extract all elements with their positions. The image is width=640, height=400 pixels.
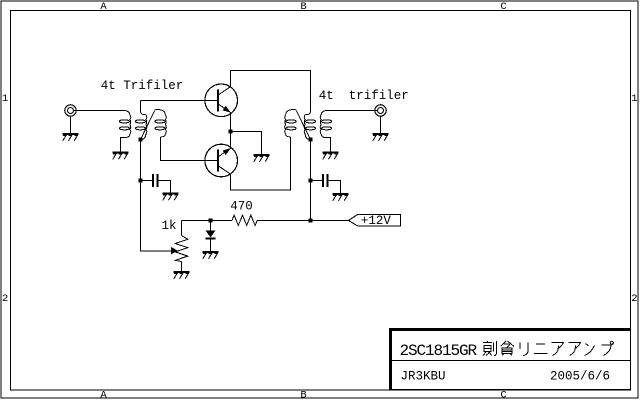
- title katakana プ: [602, 341, 614, 355]
- svg-text:+12V: +12V: [361, 214, 392, 228]
- svg-text:A: A: [100, 390, 107, 400]
- junction +12V node: [308, 218, 312, 222]
- wire Q1 collector to top rail to T2 center winding: [231, 71, 311, 113]
- ground C2: [332, 193, 348, 201]
- title katakana ア second: [569, 343, 581, 356]
- svg-text:B: B: [300, 390, 306, 400]
- ground VR1: [173, 271, 189, 279]
- junction emitters: [228, 129, 232, 133]
- wire connector ground stem: [70, 116, 72, 133]
- wire Q2 collector to T2 winding D: [231, 137, 291, 190]
- svg-text:2: 2: [2, 293, 8, 305]
- svg-text:A: A: [100, 1, 107, 13]
- wire Q2 emitter up: [230, 132, 232, 149]
- winding A (primary): [119, 111, 130, 152]
- title block: [389, 328, 631, 390]
- ground under winding A: [112, 152, 128, 160]
- junction T2 center tap: [308, 137, 312, 141]
- ground C1: [162, 193, 178, 201]
- junction bypass C1: [138, 178, 142, 182]
- svg-text:C: C: [500, 1, 506, 13]
- ground under connector J2: [372, 133, 388, 141]
- wire bias rail: [182, 220, 233, 222]
- svg-text:4t trifiler: 4t trifiler: [319, 89, 409, 103]
- transistor Q1 (2SC1815GR upper): [205, 84, 238, 117]
- wire T1 center tap down to pot: [141, 140, 172, 252]
- net flag +12V: [349, 214, 401, 228]
- ground under winding F: [322, 152, 338, 160]
- winding C: [155, 110, 167, 137]
- svg-text:1: 1: [2, 93, 8, 105]
- capacitor C1 (input bias bypass): [141, 174, 171, 193]
- transistor Q2 (2SC1815GR lower, mirrored): [205, 144, 238, 177]
- svg-text:B: B: [300, 1, 306, 13]
- title katakana ア: [552, 343, 564, 356]
- ground emitters: [253, 154, 269, 162]
- wire series diagonal B bottom to C top: [141, 111, 155, 140]
- wire Q1 base from winding B: [141, 100, 219, 102]
- wire Q2 base from winding C bottom: [161, 137, 218, 161]
- svg-text:JR3KBU: JR3KBU: [401, 370, 446, 384]
- wire Q1 emitter down: [230, 112, 232, 132]
- transformer T2 (output, 4t trifilar) with connector J2 : mirrored copy: [285, 101, 386, 152]
- title katakana ン: [585, 344, 595, 356]
- connector J1: [65, 105, 76, 116]
- svg-text:4t Trifiler: 4t Trifiler: [101, 79, 184, 93]
- transformer T1 (input, 4t trifilar) with connector J1 and winding leads: [65, 101, 166, 152]
- wire T2 center tap down to +12V node: [310, 140, 312, 221]
- junction diode node: [208, 218, 212, 222]
- svg-text:C: C: [500, 390, 506, 400]
- svg-text:2SC1815GR: 2SC1815GR: [400, 342, 478, 360]
- title kanji 貧: [501, 341, 515, 356]
- svg-text:1: 1: [631, 93, 637, 105]
- potentiometer VR1 1k: [171, 221, 188, 272]
- ground D1: [202, 251, 218, 259]
- title kanji 劇: [483, 341, 497, 356]
- svg-text:470: 470: [230, 200, 253, 214]
- wire R1 to +12V flag: [257, 220, 348, 222]
- junction T1 center tap: [138, 137, 142, 141]
- diode D1 (bias): [205, 221, 215, 252]
- winding B: [135, 101, 146, 140]
- wire input connector to winding A: [74, 110, 125, 112]
- capacitor C2 (supply bypass): [311, 174, 341, 193]
- junction bypass C2: [308, 178, 312, 182]
- svg-text:2005/6/6: 2005/6/6: [550, 370, 610, 384]
- ground under connector J1: [62, 133, 78, 141]
- title katakana ニ: [534, 344, 548, 354]
- svg-text:1k: 1k: [162, 219, 177, 233]
- title katakana リ: [520, 343, 528, 356]
- wire emitters to ground: [231, 132, 262, 155]
- svg-text:2: 2: [631, 293, 637, 305]
- resistor R1 470: [232, 215, 257, 225]
